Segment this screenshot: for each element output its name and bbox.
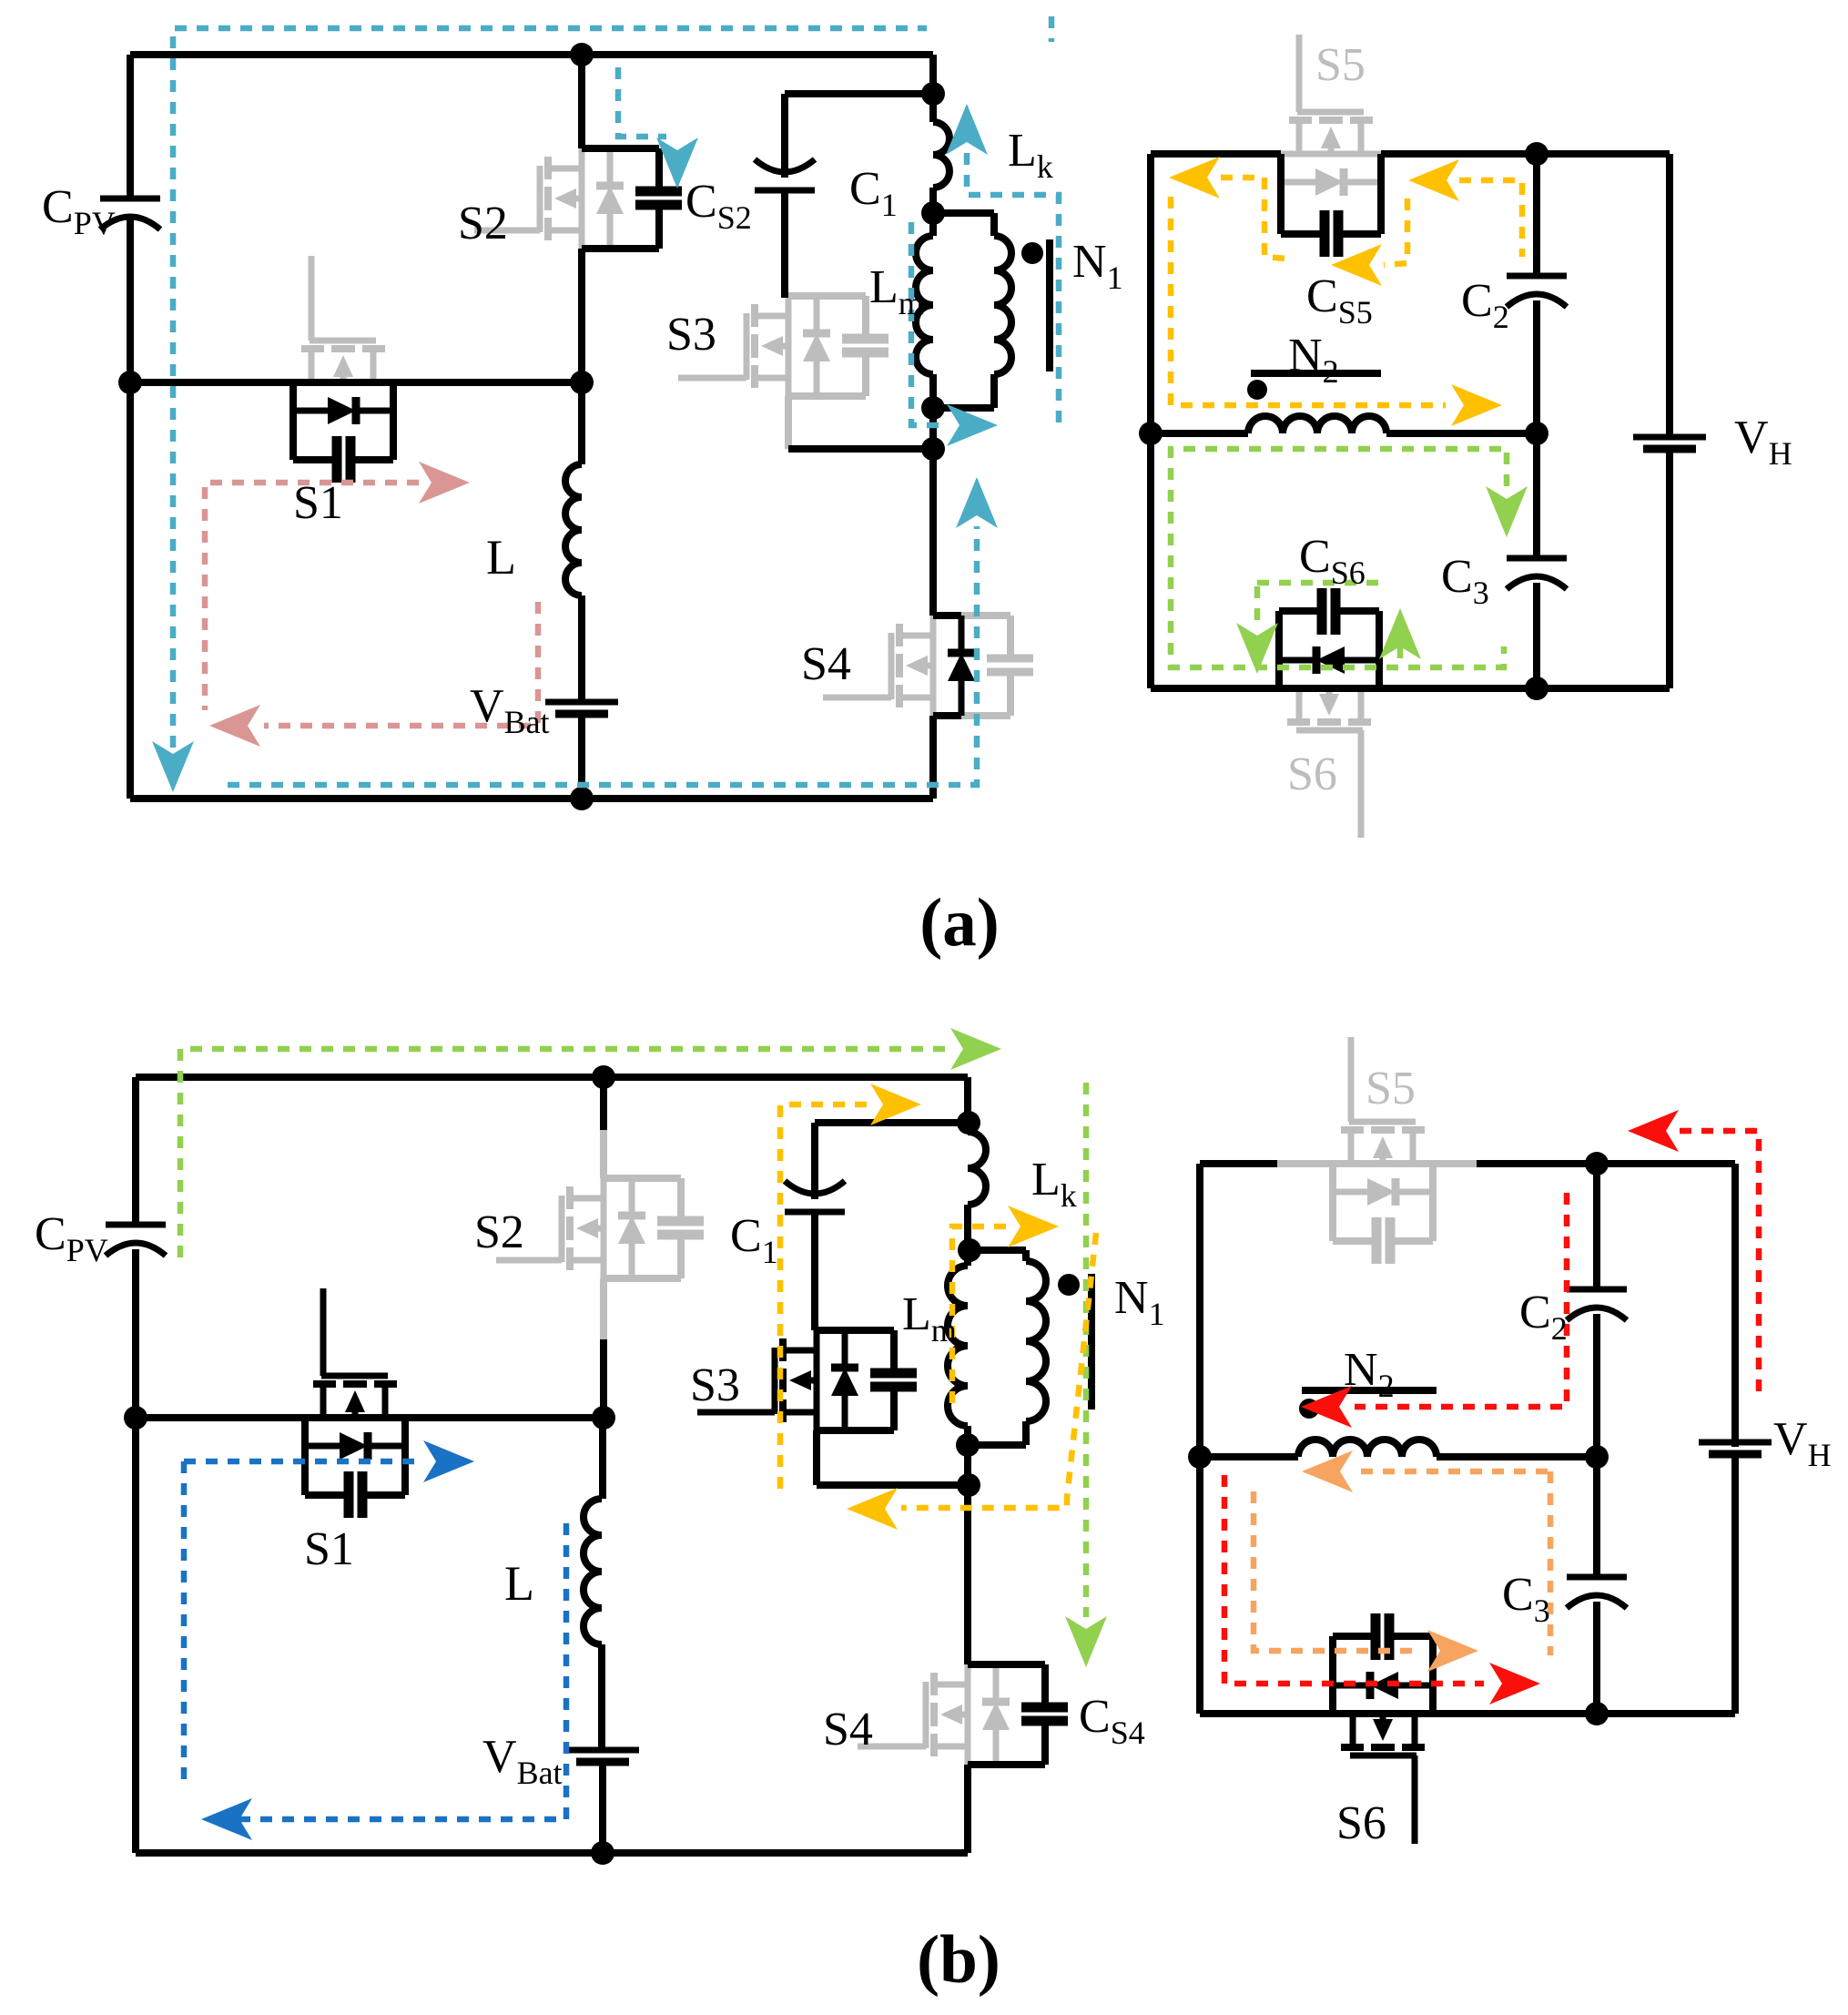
node: Lm / N1 bottom junction (fig b) [956, 1433, 980, 1457]
transistor S2 MOSFET symbol (fig a, gray) [537, 166, 543, 232]
current path (orange): through S6 snubber rightward (fig b) [1254, 1491, 1420, 1651]
body diode of S5 (fig b, gray) [1333, 1189, 1368, 1196]
polarity dot of winding N2 (fig b) [1299, 1399, 1319, 1419]
svg-text:S1: S1 [293, 477, 343, 529]
wire: transformer bottom down to S4 (fig a) [929, 408, 937, 616]
wire: S1 mid rail (fig a) [130, 379, 582, 386]
capacitor C2 (fig a) [1507, 273, 1567, 280]
current path (green): CPV along top rail rightward (fig b) [180, 1049, 947, 1257]
node: C2 top on top rail (fig b) [1585, 1152, 1609, 1175]
transistor S5 source-drain rail (fig a, gray) [1281, 151, 1381, 158]
wire: Lm bottom lead (fig a) [929, 374, 937, 408]
current path (yellow): down winding N1 and back (fig b) [901, 1233, 1096, 1508]
winding N2 of transformer (fig b) [1298, 1440, 1437, 1457]
node: C2 top on top rail (fig a) [1525, 142, 1548, 166]
wire: mid rail right segment (fig a right) [1386, 430, 1537, 437]
wire: left vertical below CPV (fig a) [127, 219, 134, 799]
wire: N1 winding bottom branch (fig b) [967, 1441, 1026, 1449]
svg-text:S4: S4 [801, 638, 851, 690]
snubber capacitor of S3 with box (fig a, gray) [788, 392, 866, 400]
wire: C1 top lead (fig a) [781, 94, 788, 178]
wire: C2 top lead (fig b) [1593, 1164, 1600, 1289]
inductor L (fig a) [565, 464, 582, 595]
current path (red): from VH along top rail leftward (fig b) [1680, 1131, 1759, 1396]
wire: VH bottom lead (fig b) [1731, 1456, 1739, 1714]
snubber capacitor of S1 with box (fig a) [289, 382, 297, 460]
capacitor CPV (fig b) [106, 1222, 166, 1228]
node: S1 rail / S2 source / L (fig a) [570, 371, 594, 394]
wire: top rail of fig (b) left circuit [136, 1074, 968, 1081]
wire: top rail of fig (a) left circuit [130, 51, 933, 58]
transistor S4 MOSFET symbol (fig b, gray) [923, 1682, 929, 1748]
wire: S4 drain jog (fig a) [933, 612, 961, 619]
transformer core bar N2 (fig b) [1302, 1387, 1437, 1394]
capacitor C1 (fig a) [755, 159, 815, 172]
wire: top rail left segment of fig (a) right circuit [1151, 150, 1281, 158]
current path (yellow): from C2 toward S5 (fig a) [1459, 180, 1522, 257]
node: S1 rail / S2 source / L (fig b) [592, 1406, 615, 1430]
wire: C1 top lead (fig b) [811, 1123, 818, 1199]
snubber capacitor CS6 with box (fig a) [1376, 611, 1383, 688]
wire: C3 top lead (fig b) [1593, 1457, 1600, 1577]
transistor S4 MOSFET symbol (fig a, gray) [888, 633, 895, 699]
inductor Lk leakage (fig a) [933, 122, 949, 188]
wire: top rail right segment of fig (b) right circuit [1477, 1160, 1735, 1167]
wire: top rail right segment of fig (a) right circuit [1381, 150, 1670, 158]
wire: S3 source branch (fig b) [817, 1481, 968, 1489]
wire: N1 winding top lead (fig b) [1022, 1250, 1030, 1261]
wire: node down to S4 (fig b) [964, 1485, 971, 1664]
wire: C3 bottom lead (fig b) [1593, 1602, 1600, 1714]
transistor S2 MOSFET symbol (fig b, gray) [559, 1196, 565, 1262]
current path (yellow): along winding N2 to C2 (fig a) [1171, 197, 1446, 405]
capacitor C3 (fig b) [1567, 1574, 1627, 1581]
current path (red): down C2 branch along N2 leftward (fig b) [1355, 1193, 1567, 1407]
wire: VH top lead (fig a) [1666, 154, 1673, 437]
current path (green): up out of S6 diode (fig a) [1379, 608, 1421, 659]
polarity dot of winding N1 (fig a) [1021, 242, 1043, 264]
svg-text:S3: S3 [690, 1359, 740, 1411]
wire: L to VBat (fig a) [578, 595, 585, 702]
winding N1 of transformer (fig b) [1026, 1261, 1046, 1421]
wire: mid rail left segment (fig b right) [1200, 1453, 1298, 1460]
wire: node to Lm (fig b) [964, 1250, 971, 1266]
current path (blue): through S1 rightward (fig b) [184, 1459, 417, 1465]
node: C1 top junction (fig b) [957, 1111, 980, 1135]
current path (teal): down magnetizing inductor Lm (fig a) [911, 222, 943, 425]
node: C3 bottom on bottom rail (fig b) [1585, 1702, 1609, 1725]
wire: S2 drain lead gray part (fig b) [600, 1130, 607, 1178]
wire: left vertical below CPV (fig b) [132, 1249, 139, 1853]
inductor Lm magnetizing (fig b) [948, 1266, 968, 1426]
wire: N1 winding top lead (fig a) [990, 213, 998, 236]
transistor S6 MOSFET symbol (fig a, gray) [1296, 728, 1363, 734]
snubber capacitor of S2 with box (fig b, gray) [604, 1275, 681, 1282]
svg-text:S2: S2 [458, 198, 508, 249]
body diode of S1 (fig b) [305, 1443, 340, 1450]
snubber capacitor of S1 with box (fig b) [301, 1418, 309, 1495]
wire: S2 drain lead (fig b) [600, 1077, 607, 1130]
wire: S4 source jog (fig a) [933, 712, 961, 719]
wire: L top lead (fig b) [599, 1418, 606, 1499]
svg-text:S2: S2 [474, 1206, 524, 1258]
transistor S4 source-drain rail (fig b, gray) [965, 1664, 971, 1765]
node A: C1 / Lk junction (fig a) [921, 82, 945, 106]
capacitor C3 (fig a) [1507, 555, 1567, 562]
transformer core bar N2 (fig a) [1251, 370, 1381, 377]
current path (green): down into C3 (fig a) [1504, 453, 1510, 488]
current path (pink): S1 / L / VBat loop (fig a) [205, 483, 419, 710]
wire: C2 bottom lead (fig a) [1533, 300, 1540, 433]
snubber capacitor of S5 with box (fig b, gray) [1329, 1164, 1336, 1241]
wire: bottom rail of fig (a) left circuit [130, 795, 933, 802]
snubber capacitor of S6 with box (fig b) [1429, 1636, 1437, 1714]
current path (yellow): into snubber capacitor CS5 (fig a) [1384, 198, 1407, 265]
current path (teal): stray segment top right (fig a) [1049, 16, 1055, 42]
svg-text:L: L [486, 530, 516, 585]
wire: C1 bottom lead to S3 drain (fig a) [781, 190, 788, 298]
wire: top-right corner down to node A (fig a) [929, 55, 937, 94]
wire: left vertical of fig (b) right circuit [1196, 1164, 1203, 1714]
transistor S5 MOSFET symbol (fig b, gray) [1349, 1119, 1416, 1125]
wire: mid rail left segment (fig a right) [1151, 430, 1248, 437]
battery VBat (fig b) [566, 1747, 639, 1754]
body diode of S3 (fig a, gray) [814, 361, 820, 396]
transistor S3 source-drain rail (fig a, gray) [786, 296, 792, 396]
wire: mid rail right segment (fig b right) [1437, 1453, 1597, 1460]
wire: Lk to Lm (fig a) [929, 188, 937, 236]
wire: top rail left segment of fig (b) right circuit [1200, 1160, 1277, 1167]
wire: bottom rail of fig (b) left circuit [136, 1849, 968, 1857]
wire: S1 mid rail (fig b) [136, 1414, 604, 1421]
transistor S4 source-drain rail (fig a, gray) [930, 616, 937, 716]
wire: S2 source lead (fig a) [578, 249, 585, 382]
svg-text:S1: S1 [304, 1523, 354, 1575]
wire: VBat to bottom rail (fig a) [578, 715, 585, 799]
transistor S1 MOSFET symbol (fig a, gray) [310, 338, 376, 344]
current path (blue): bottom of S1 / L / VBat loop (fig b) [239, 1520, 566, 1819]
svg-text:S5: S5 [1366, 1063, 1416, 1114]
node: C2 / C3 mid junction (fig b) [1585, 1445, 1609, 1469]
transformer core bar N1 (fig a) [1046, 239, 1053, 371]
transistor S6 MOSFET symbol conducting (fig b) [1350, 1753, 1416, 1759]
wire: N1 winding bottom lead (fig a) [990, 374, 998, 408]
current path (yellow): through S5 rail leftward (fig a) [1221, 178, 1285, 259]
wire: N1 winding bottom branch (fig a) [933, 404, 994, 412]
current path (green): into snubber capacitor CS6 (fig a) [1257, 580, 1380, 586]
wire: node A to Lk (fig a) [929, 94, 937, 122]
wire: S2 drain lead (fig a) [578, 55, 585, 148]
wire: C2 top lead (fig a) [1533, 154, 1540, 276]
svg-text:S5: S5 [1315, 39, 1366, 91]
body diode of S2 (fig a, gray) [607, 213, 614, 249]
transistor S1 MOSFET symbol conducting (fig b) [321, 1373, 388, 1379]
node: S2 drain on top rail (fig a) [570, 43, 594, 66]
svg-text:S6: S6 [1336, 1797, 1386, 1849]
wire: left vertical of fig (a) right circuit [1147, 154, 1154, 688]
snubber capacitor of S4 (fig a, gray) [961, 712, 1010, 719]
wire: S3 source lead (fig b) [813, 1430, 820, 1485]
wire: C1 top branch (fig a) [785, 90, 933, 97]
transistor S2 source-drain rail (fig b, gray) [601, 1178, 607, 1278]
transistor S5 source-drain rail (fig b, gray) [1277, 1160, 1477, 1167]
body diode of S4 (fig b, gray) [993, 1729, 1000, 1765]
current path (green): down through transformer branch (fig b) [1083, 1083, 1090, 1617]
polarity dot of winding N2 (fig a) [1247, 380, 1267, 400]
snubber capacitor of S3 with box (fig b) [817, 1427, 894, 1434]
node: mid rail left (fig b) [1188, 1445, 1212, 1469]
svg-text:S4: S4 [823, 1704, 873, 1755]
current path (teal): up through Lk and down winding N1 (fig a) [967, 153, 1059, 430]
current path (orange): C3 branch down (fig b) [1548, 1471, 1554, 1655]
node: Lk / Lm / N1 top junction (fig b) [958, 1238, 981, 1262]
capacitor C1 (fig b) [785, 1181, 845, 1194]
battery VBat (fig a) [545, 699, 618, 706]
wire: transformer bottom to S3 node (fig b) [964, 1445, 971, 1485]
node: C2 / C3 mid junction (fig a) [1525, 422, 1548, 445]
body diode of S2 (fig b, gray) [629, 1243, 635, 1278]
snubber capacitor CS2 with jog (fig a) [582, 245, 659, 252]
node: Lm / N1 bottom junction (fig a) [921, 396, 945, 420]
wire: N1 winding bottom lead (fig b) [1022, 1421, 1030, 1445]
wire: C1 bottom lead to S3 drain (fig b) [811, 1212, 818, 1330]
current path (teal): main loop via top rail and left rail (fig a) [173, 28, 927, 769]
wire: S2 source lead (fig b) [600, 1339, 607, 1418]
wire: S4 source to bottom rail (fig a) [929, 716, 937, 799]
capacitor CPV (fig a) [100, 196, 160, 202]
wire: C1 top branch (fig b) [815, 1119, 968, 1126]
battery VH (fig a) [1633, 434, 1706, 441]
capacitor C2 (fig b) [1567, 1287, 1627, 1293]
wire: L to VBat (fig b) [598, 1644, 605, 1750]
body diode of S6 conducting (fig a) [1344, 657, 1379, 664]
node: Lk / Lm / N1 top junction (fig a) [921, 201, 945, 225]
node: C3 bottom on bottom rail (fig a) [1525, 677, 1548, 700]
transformer core bar N1 (fig b) [1088, 1274, 1095, 1409]
node: mid rail left (fig a) [1139, 422, 1163, 445]
node: S3 source junction (fig b) [957, 1473, 980, 1497]
wire: C3 top lead (fig a) [1533, 433, 1540, 558]
current path (green): N2 / C3 lower loop (fig a) [1171, 449, 1504, 667]
svg-text:L: L [504, 1556, 534, 1611]
wire: S3 source to transformer column (fig a) [788, 445, 933, 453]
body diode of S1 (fig a) [293, 408, 329, 414]
transistor S3 MOSFET symbol conducting (fig b) [772, 1348, 778, 1414]
snubber capacitor CS5 with notch (fig a) [1277, 154, 1284, 234]
current path (yellow): C1 / S3 resonant loop left side (fig b) [780, 1104, 867, 1493]
body diode of S4 conducting (fig a) [959, 680, 965, 716]
wire: Lm bottom lead (fig b) [964, 1426, 971, 1445]
svg-text:(b): (b) [917, 1922, 1000, 1998]
wire: bottom rail of fig (a) right circuit [1151, 685, 1670, 692]
snubber capacitor CS4 with jog (fig b) [968, 1761, 1045, 1768]
wire: S4 source to bottom rail (fig b) [964, 1765, 971, 1853]
node: VBat on bottom rail (fig a) [570, 787, 594, 810]
wire: VH top lead (fig b) [1731, 1164, 1739, 1447]
transistor S3 source-drain rail conducting (fig b) [814, 1330, 820, 1430]
wire: bottom rail of fig (b) right circuit [1200, 1710, 1735, 1717]
body diode of S6 (fig b) [1397, 1683, 1433, 1689]
wire: N1 winding top branch (fig b) [970, 1247, 1026, 1254]
current path (teal): into snubber capacitor CS2 (fig a) [618, 67, 666, 137]
wire: N1 winding top branch (fig a) [933, 209, 994, 217]
node: left rail / S1 rail (fig a) [118, 371, 142, 394]
node: S2 drain on top rail (fig b) [592, 1065, 615, 1089]
body diode of S3 (fig b) [842, 1395, 848, 1430]
wire: S2 source lead gray part (fig b) [600, 1278, 607, 1339]
current path (blue): left side of S1 / L / VBat loop (fig b) [181, 1461, 188, 1788]
transistor S3 MOSFET symbol (fig a, gray) [744, 313, 750, 380]
wire: left vertical (PV side, fig a) [127, 55, 134, 196]
wire: C3 bottom lead (fig a) [1533, 583, 1540, 688]
winding N1 of transformer (fig a) [994, 236, 1011, 374]
current path (teal): bottom rail up through S4 diode (fig a) [228, 526, 977, 785]
inductor Lk leakage (fig b) [968, 1132, 986, 1205]
wire: Lk to transformer node (fig b) [964, 1205, 971, 1250]
node: VBat on bottom rail (fig b) [591, 1841, 614, 1865]
node: left rail / S1 rail (fig b) [124, 1406, 147, 1430]
wire: VBat to bottom rail (fig b) [599, 1763, 606, 1853]
current path (orange): N2 / C3 loop top leftward (fig b) [1356, 1469, 1548, 1475]
svg-text:S6: S6 [1287, 748, 1337, 800]
svg-text:S3: S3 [666, 309, 716, 361]
wire: L top lead (fig a) [578, 382, 585, 464]
body diode of S5 (fig a, gray) [1281, 179, 1316, 186]
inductor L (fig b) [584, 1499, 602, 1644]
wire: top-right corner down to C1 node (fig b) [964, 1077, 971, 1123]
winding N2 of transformer (fig a) [1248, 416, 1386, 433]
current path (yellow): down past Lm (fig b) [952, 1226, 1006, 1407]
current path (red): down left rail through S6 diode (fig b) [1224, 1475, 1484, 1684]
wire: C2 bottom lead (fig b) [1593, 1314, 1600, 1457]
transistor S5 MOSFET symbol (fig a, gray) [1297, 109, 1364, 116]
inductor Lm magnetizing (fig a) [916, 236, 933, 374]
transistor S2 source-drain rail (fig a, gray) [579, 148, 585, 249]
node: S3 source junction (fig a) [921, 437, 945, 461]
battery VH (fig b) [1699, 1440, 1772, 1446]
svg-text:(a): (a) [919, 885, 999, 961]
wire: VH bottom lead (fig a) [1666, 450, 1673, 688]
polarity dot of winding N1 (fig b) [1058, 1274, 1080, 1296]
wire: left vertical (PV side, fig b) [132, 1077, 139, 1225]
wire: S3 source lead (fig a, gray) [785, 396, 792, 449]
